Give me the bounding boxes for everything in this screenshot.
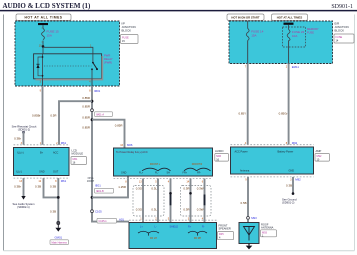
svg-text:A01: A01 — [119, 218, 124, 222]
memory fuse dashed enclosure — [283, 27, 306, 47]
svg-text:0.85Gr: 0.85Gr — [279, 112, 288, 116]
svg-text:10A: 10A — [292, 34, 297, 38]
svg-text:R-: R- — [202, 226, 205, 229]
svg-text:HOT IN ON OR START: HOT IN ON OR START — [231, 16, 260, 20]
antenna ground arrow — [246, 244, 253, 250]
node W18 end — [292, 192, 295, 195]
page border left — [3, 15, 5, 251]
svg-text:FRONT: FRONT — [219, 223, 228, 227]
wire branch to relay switch — [43, 47, 93, 54]
relay switch arm — [93, 63, 97, 70]
svg-text:0.3Br: 0.3Br — [14, 184, 21, 188]
svg-text:FR LH: FR LH — [150, 237, 157, 240]
bus bar (I/P) — [38, 23, 48, 25]
svg-text:L-: L- — [155, 226, 157, 229]
wire W3 branch to LCD module — [59, 101, 92, 145]
connector C201 (in-line) — [91, 109, 94, 112]
svg-text:C105: C105 — [95, 209, 102, 213]
svg-text:0.85R: 0.85R — [82, 115, 90, 119]
svg-text:0.3L: 0.3L — [151, 186, 157, 190]
wire relay to block edge left — [42, 79, 44, 86]
svg-text:FRONT L: FRONT L — [150, 163, 161, 166]
LCD module box — [14, 148, 70, 176]
connector C201 label box — [95, 112, 113, 117]
fuse F1 — [42, 29, 45, 40]
relay switch wire top — [92, 54, 94, 63]
svg-text:Antenna: Antenna — [240, 169, 250, 172]
svg-text:ACC: ACC — [53, 151, 58, 154]
shield box right — [181, 186, 212, 217]
node switch top — [92, 62, 94, 64]
svg-text:M93: M93 — [251, 216, 257, 220]
svg-text:IE01: IE01 — [95, 184, 101, 188]
svg-text:JOINT: JOINT — [87, 180, 95, 183]
shield box left — [133, 186, 164, 217]
svg-text:0.3L: 0.3L — [151, 207, 157, 211]
svg-text:0.3G: 0.3G — [136, 186, 143, 190]
svg-text:AUDIO: AUDIO — [215, 149, 224, 153]
audio internal arc left — [142, 168, 171, 171]
svg-text:FRONT R: FRONT R — [192, 163, 203, 166]
amplifier box — [231, 147, 314, 174]
svg-text:MODULE: MODULE — [72, 152, 84, 156]
E/R junction connector box — [334, 34, 354, 43]
node W2/W4 — [91, 118, 94, 121]
svg-text:0.3W: 0.3W — [197, 207, 204, 211]
svg-text:0.3B: 0.3B — [50, 209, 56, 213]
svg-text:FR-: FR- — [197, 171, 201, 174]
wire fuse feed — [42, 25, 44, 28]
svg-text:0.3G: 0.3G — [136, 207, 143, 211]
wire W1 I/P to LCD module — [42, 86, 44, 145]
node W12 — [169, 192, 172, 195]
antenna symbol — [244, 227, 255, 241]
title rule — [0, 10, 357, 12]
svg-text:IM01-A: IM01-A — [96, 113, 104, 116]
svg-text:IM01: IM01 — [94, 89, 101, 93]
I/P junction connector box — [121, 35, 139, 44]
amplifier connector dashes (top) — [231, 144, 314, 146]
svg-text:0.3B: 0.3B — [50, 184, 56, 188]
svg-text:(SD901-2): (SD901-2) — [282, 201, 295, 205]
svg-text:SD901-1: SD901-1 — [331, 4, 353, 10]
svg-text:ACC Power: ACC Power — [235, 150, 248, 153]
svg-text:0.85R: 0.85R — [82, 96, 90, 100]
svg-text:0.85R: 0.85R — [82, 105, 90, 109]
svg-text:0.85R: 0.85R — [82, 125, 90, 129]
svg-text:See Rheostat Circuit: See Rheostat Circuit — [12, 124, 37, 128]
audio connector box — [215, 154, 229, 162]
svg-text:M92: M92 — [292, 141, 298, 145]
wire fuse F2 feed — [247, 21, 249, 29]
svg-text:0.85Br: 0.85Br — [32, 113, 41, 117]
relay link (dashed) — [44, 65, 92, 67]
wire W6 arrow — [21, 196, 25, 200]
wire W9 audio B+ branch — [92, 176, 128, 197]
svg-text:0.3W: 0.3W — [197, 186, 204, 190]
svg-text:GM01: GM01 — [54, 236, 62, 240]
svg-text:BLOCK: BLOCK — [122, 29, 132, 33]
wire W7 LCD ground jog — [44, 178, 59, 197]
svg-text:ANTENNA: ANTENNA — [261, 226, 274, 230]
svg-text:OUT: OUT — [53, 171, 59, 174]
connector antenna (in-line) — [247, 217, 250, 220]
node switch contact — [91, 68, 93, 70]
speaker box — [129, 223, 217, 249]
wire W14 front right - — [204, 179, 206, 223]
wire W8 LCD ground — [57, 178, 59, 221]
wire W17 antenna feed — [247, 177, 249, 217]
svg-text:0.85R: 0.85R — [115, 124, 123, 128]
node W2/W9 — [91, 196, 94, 199]
amplifier connector dashes (bottom) — [231, 176, 314, 178]
label box HOT IN ON OR START — [227, 14, 264, 20]
node fuse output — [42, 45, 45, 48]
speaker internal arc right — [188, 231, 207, 235]
relay K1 shadow — [36, 56, 103, 80]
svg-text:0.5B: 0.5B — [241, 201, 247, 205]
diode D1 — [36, 64, 39, 68]
svg-text:0.85Y: 0.85Y — [238, 112, 246, 116]
svg-text:M61: M61 — [61, 179, 67, 183]
speaker connector dashes (top) — [129, 219, 217, 221]
svg-text:FL+: FL+ — [139, 171, 144, 174]
amplifier connector box — [315, 154, 330, 162]
wire W13 front right + — [190, 179, 192, 223]
svg-text:PWR: PWR — [104, 54, 110, 58]
svg-text:Main Harness: Main Harness — [52, 241, 68, 244]
svg-text:To Power Relay ILL(+) ACC: To Power Relay ILL(+) ACC — [116, 150, 148, 154]
svg-text:HOT AT ALL TIMES: HOT AT ALL TIMES — [24, 16, 62, 20]
wire W12 dark segment — [170, 193, 172, 205]
svg-text:C105-1: C105-1 — [99, 220, 108, 223]
svg-text:ROOF: ROOF — [261, 222, 269, 226]
fuse F3 — [287, 30, 290, 41]
svg-text:EM11: EM11 — [292, 65, 300, 69]
svg-text:(PWR): (PWR) — [104, 60, 112, 64]
svg-text:(SD901-2): (SD901-2) — [18, 128, 31, 132]
node coil top — [42, 56, 44, 58]
svg-text:AUDIO & LCD SYSTEM (1): AUDIO & LCD SYSTEM (1) — [3, 2, 92, 10]
svg-text:ILL(-): ILL(-) — [16, 171, 22, 174]
svg-text:GND: GND — [289, 169, 295, 172]
joint connector box — [95, 188, 114, 193]
connector C105 box — [97, 218, 117, 223]
page border right — [354, 15, 356, 251]
LCD module connector box — [71, 157, 87, 165]
svg-text:BLOCK: BLOCK — [335, 29, 345, 33]
wire W5 from rheostat page — [22, 131, 25, 133]
svg-text:1.25R: 1.25R — [118, 185, 126, 189]
svg-text:GND: GND — [121, 171, 127, 174]
svg-text:M92: M92 — [295, 178, 301, 182]
wire W10 front left + — [142, 179, 144, 223]
svg-text:SPEAKER: SPEAKER — [219, 227, 231, 231]
svg-text:See Ground: See Ground — [282, 197, 297, 201]
svg-text:0.3R: 0.3R — [183, 186, 189, 190]
svg-text:AMP: AMP — [316, 149, 322, 153]
node W2/W3 — [91, 100, 94, 103]
wire W17b to antenna box — [247, 219, 249, 222]
svg-text:FUSE: FUSE — [307, 30, 314, 34]
diode branch — [38, 57, 43, 76]
wire W12 shield drain — [170, 179, 172, 223]
node coil bottom — [42, 75, 44, 77]
node W13 — [189, 192, 192, 195]
antenna connector box — [261, 230, 277, 238]
fuse F2 — [246, 29, 249, 41]
svg-text:0.3B: 0.3B — [286, 183, 292, 187]
audio unit connector dashes (bottom) — [114, 178, 213, 180]
ground GM01 location box — [50, 240, 69, 245]
svg-text:See Audio System: See Audio System — [13, 202, 36, 206]
svg-text:SHIELD: SHIELD — [170, 226, 179, 229]
node W7/W8 — [57, 196, 60, 199]
svg-text:M61: M61 — [61, 141, 67, 145]
svg-text:0.3Br: 0.3Br — [14, 137, 21, 141]
svg-text:0.3R: 0.3R — [183, 207, 189, 211]
wire W16 E/R to amp batt — [288, 64, 290, 145]
svg-text:GND: GND — [39, 171, 45, 174]
svg-text:Battery Power: Battery Power — [278, 150, 294, 153]
svg-text:M06: M06 — [127, 143, 133, 147]
wire W15 E/R to amp acc — [247, 64, 249, 145]
svg-text:FR RH: FR RH — [194, 237, 202, 240]
LCD module connector dashes (top) — [14, 144, 70, 146]
LCD module connector dashes (bottom) — [14, 177, 70, 179]
svg-text:0.3B: 0.3B — [35, 184, 41, 188]
connector C105 (in-line) — [91, 210, 94, 213]
speaker internal arc left — [138, 231, 159, 235]
wire W6 LCD ill out — [23, 178, 25, 196]
page border bottom — [4, 250, 355, 252]
speaker connector box — [218, 232, 234, 240]
wire W2 main feed (relay output) — [92, 86, 129, 222]
label box HOT AT ALL TIMES (right) — [272, 14, 308, 20]
svg-text:15A: 15A — [251, 33, 256, 37]
wire F3 to edge — [288, 41, 290, 64]
wire fuse F3 feed — [288, 25, 290, 30]
svg-text:HOT AT ALL TIMES: HOT AT ALL TIMES — [277, 16, 303, 20]
label box HOT AT ALL TIMES (left) — [16, 14, 71, 20]
svg-text:SH: SH — [167, 171, 171, 174]
bus bar (E/R) — [284, 23, 294, 25]
svg-text:ILL(+): ILL(+) — [17, 151, 24, 154]
svg-text:RELAY: RELAY — [104, 57, 113, 61]
ground GM01 — [55, 222, 61, 232]
svg-text:LCD: LCD — [72, 148, 77, 152]
E/R junction block (highlighted region) — [229, 21, 333, 64]
svg-text:B+: B+ — [40, 151, 44, 154]
I/P junction block (highlighted region) — [15, 21, 120, 86]
wire relay to block edge right — [91, 79, 93, 86]
wire W11 front left - — [157, 179, 159, 223]
svg-text:15A: 15A — [47, 33, 52, 37]
wire F2 to edge — [247, 41, 249, 64]
svg-text:FL-: FL- — [155, 171, 159, 174]
svg-text:FR+: FR+ — [183, 171, 188, 174]
relay coil wire — [42, 54, 44, 79]
relay switch wire bottom — [91, 69, 93, 79]
svg-text:(SD902-1): (SD902-1) — [17, 205, 30, 209]
relay K1 box — [34, 54, 102, 79]
audio unit box — [114, 148, 213, 176]
wire fuse to node — [42, 41, 44, 54]
antenna box — [239, 223, 259, 244]
wire W18 amp ground stub — [292, 177, 294, 193]
svg-text:0.5R: 0.5R — [50, 113, 56, 117]
svg-text:IE01-B: IE01-B — [96, 190, 104, 193]
audio internal arc right — [184, 168, 211, 171]
wire W4 branch to audio unit — [92, 120, 125, 148]
wire W14 dark segment — [204, 195, 206, 206]
